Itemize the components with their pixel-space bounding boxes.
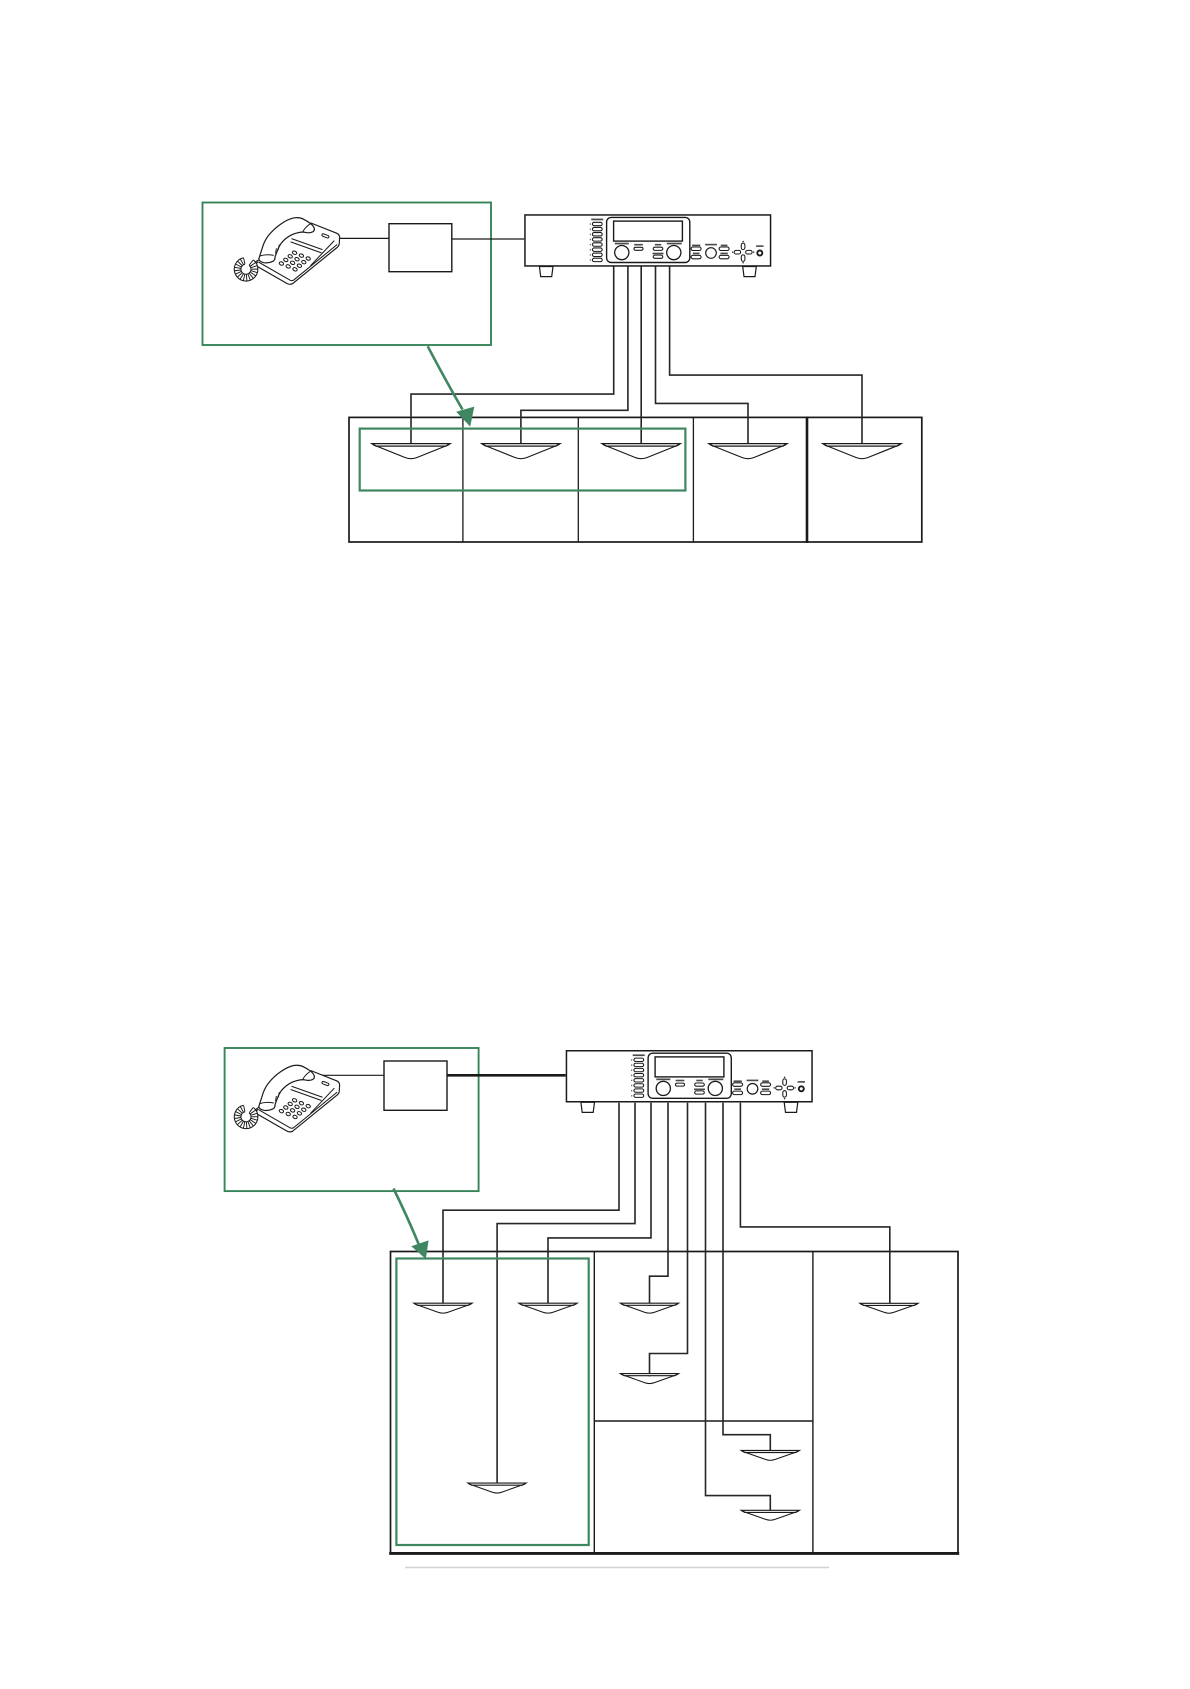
wire interface box to amplifier (top): [452, 238, 524, 240]
amplifier U2 (bottom diagram): [566, 1051, 812, 1113]
room separator horizontal middle (bottom): [594, 1420, 813, 1422]
ceiling speaker L1 (bottom): [741, 1450, 799, 1460]
speaker zone row rectangle zones 1-4 (top diagram): [349, 417, 807, 542]
building thick bottom edge (bottom): [389, 1552, 959, 1555]
zone 5 rectangle (top diagram): [807, 417, 922, 542]
wire telephone to interface box (top): [340, 237, 390, 239]
wire amp to speaker L2 (bottom): [706, 1103, 771, 1513]
wire amp to speaker L1 (bottom): [723, 1103, 770, 1453]
ceiling speaker M1 (bottom): [621, 1303, 679, 1313]
wire telephone to interface box (bottom): [322, 1074, 384, 1076]
telephone TEL2 (bottom diagram): [234, 1065, 339, 1132]
wire amp to speaker R1 (bottom): [740, 1103, 889, 1306]
ceiling speaker SP1 (top): [372, 444, 450, 459]
building rectangle (bottom diagram): [391, 1252, 959, 1554]
ceiling speaker SP4 (top): [709, 444, 787, 459]
green highlight box around telephone and interface (top diagram): [203, 203, 492, 346]
wire amp to speaker B (bottom): [548, 1103, 651, 1306]
room separator right (bottom): [812, 1252, 814, 1554]
zone 5 thick left edge (top): [806, 417, 809, 543]
ceiling speaker C (bottom): [468, 1483, 526, 1493]
thick wire interface box to amplifier (bottom): [447, 1074, 566, 1077]
green arrow from highlight box to speaker zone (top): [428, 346, 463, 409]
green arrow from highlight box to zone 1 (bottom): [394, 1189, 420, 1246]
ceiling speaker L2 (bottom): [741, 1510, 799, 1520]
interface box (bottom diagram): [384, 1061, 447, 1110]
room separator left (bottom): [593, 1252, 595, 1554]
ceiling speaker SP5 (top): [823, 444, 901, 459]
green highlight rect around speakers 1-3 (top diagram): [360, 429, 686, 491]
wire amp to speaker M2 (bottom): [650, 1103, 688, 1377]
interface box (top diagram): [389, 224, 452, 272]
zone separator 3 (top): [692, 417, 694, 542]
green highlight rect around zone 1 (bottom diagram): [396, 1259, 588, 1546]
green highlight box around telephone and interface (bottom diagram): [225, 1048, 479, 1191]
wire amp to speaker SP3 (top): [640, 266, 642, 446]
ceiling speaker B (bottom): [519, 1303, 577, 1313]
wire amp to speaker M1 (bottom): [650, 1103, 669, 1306]
wire amp to speaker SP4 (top): [656, 266, 749, 446]
telephone TEL1 (top diagram): [234, 218, 339, 285]
amplifier U1 (top diagram): [525, 215, 771, 277]
ceiling speaker M2 (bottom): [621, 1374, 679, 1384]
wire amp to speaker A (bottom): [443, 1103, 619, 1306]
ceiling speaker SP3 (top): [602, 444, 680, 459]
ceiling speaker A (bottom): [414, 1303, 472, 1313]
ceiling speaker SP2 (top): [482, 444, 560, 459]
wire amp to speaker SP1 (top): [411, 266, 614, 446]
wire amp to speaker SP5 (top): [670, 266, 862, 446]
wire amp to speaker C long drop (bottom): [497, 1103, 635, 1485]
zone separator 2 (top): [577, 417, 579, 542]
zone separator 1 (top): [462, 417, 464, 542]
wire amp to speaker SP2 (top): [521, 266, 628, 446]
faint page artifact line: [405, 1567, 829, 1569]
ceiling speaker R1 (bottom): [860, 1303, 918, 1313]
